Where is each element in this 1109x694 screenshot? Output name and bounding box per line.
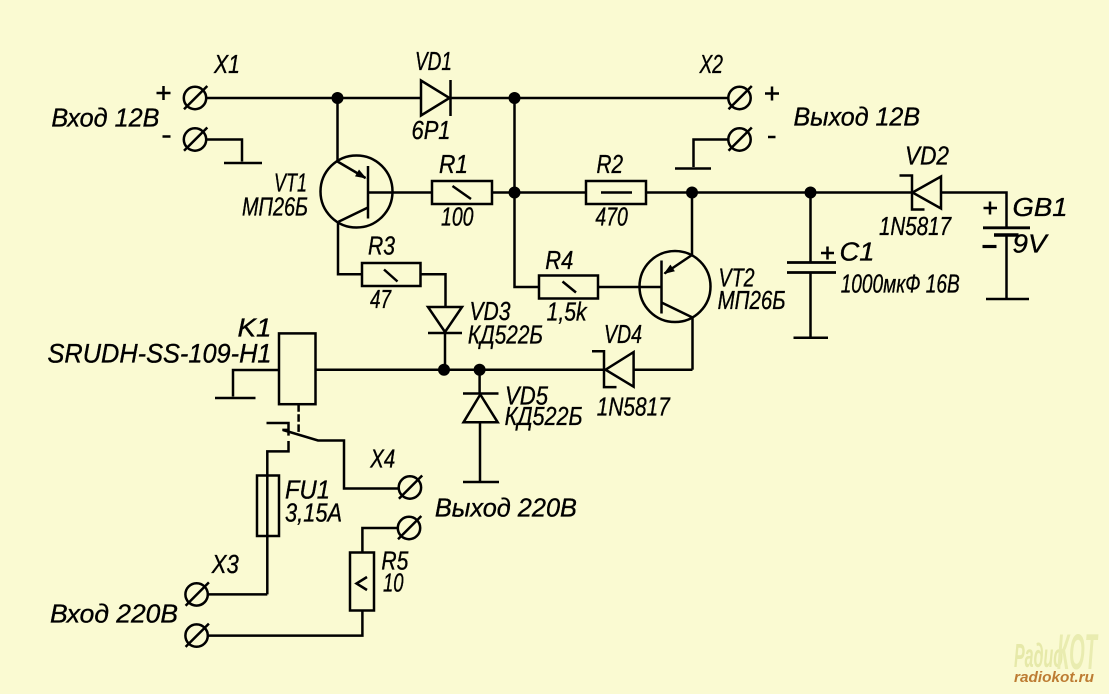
- wire VD1 to node B: [451, 97, 729, 100]
- svg-text:Выход 12В: Выход 12В: [794, 101, 921, 131]
- svg-text:МП26Б: МП26Б: [242, 192, 308, 222]
- terminal X2 pin + (plus, Выход 12В): [728, 86, 752, 109]
- svg-text:GB1: GB1: [1013, 192, 1068, 222]
- diode VD3 КД522Б: [428, 307, 462, 370]
- terminal X4 lower: [398, 516, 422, 539]
- minus sign at GB1: [983, 245, 997, 248]
- svg-text:Вход 12В: Вход 12В: [51, 102, 159, 132]
- dashed mechanical link K1 to contact: [297, 404, 300, 433]
- wire VD4 to VT2 collector: [634, 368, 693, 371]
- diode VD4 1N5817 (Schottky): [592, 351, 634, 387]
- wire VT2 collector down to VD4: [691, 318, 694, 370]
- svg-text:100: 100: [441, 202, 474, 232]
- relay contact K1.1: lower terminal to fuse: [267, 441, 288, 476]
- wire VT1 base to R1: [368, 191, 432, 194]
- svg-text:VD1: VD1: [415, 46, 452, 76]
- node G (junction VD5 / bus): [474, 364, 486, 376]
- plus sign at C1: [821, 247, 834, 260]
- wire R1 to node C: [492, 191, 586, 194]
- plus sign at X1: [157, 86, 171, 100]
- svg-text:6Р1: 6Р1: [412, 115, 451, 145]
- svg-text:R2: R2: [597, 149, 624, 179]
- svg-text:Радио: Радио: [1014, 637, 1063, 674]
- svg-text:3,15A: 3,15A: [285, 498, 342, 528]
- svg-text:КД522Б: КД522Б: [468, 320, 543, 350]
- wire VT1 emitter down to R3: [338, 222, 362, 274]
- svg-text:МП26Б: МП26Б: [718, 285, 786, 315]
- wire node A down to VT1 collector: [336, 98, 339, 162]
- resistor R4: [539, 276, 598, 299]
- svg-text:R3: R3: [368, 231, 395, 261]
- node A (junction top wire / VT1 collector): [332, 92, 344, 104]
- plus sign at GB1: [984, 202, 998, 215]
- resistor R5 (thermistor): [350, 553, 374, 611]
- wire X1+ to node A: [206, 97, 421, 100]
- resistor R3: [362, 263, 421, 286]
- svg-text:470: 470: [595, 202, 628, 232]
- svg-text:VD4: VD4: [604, 319, 642, 349]
- svg-text:1N5817: 1N5817: [879, 211, 952, 241]
- wire X1- to ground: [206, 140, 242, 162]
- terminal X2 pin - (minus): [728, 128, 752, 151]
- ground (common bar) at K1: [215, 397, 256, 400]
- relay contact K1.1: fixed contact: [267, 423, 289, 436]
- wire R2 to VD2: [646, 191, 912, 194]
- svg-text:9V: 9V: [1013, 229, 1050, 259]
- ground (common bar) at X1 minus: [224, 162, 262, 165]
- transistor VT1 МП26Б (PNP): [321, 156, 393, 228]
- wire X2- to ground: [694, 140, 729, 168]
- svg-text:47: 47: [370, 284, 392, 314]
- wire node B down through node C to R4: [515, 98, 540, 287]
- wire relay K1 to VD4 (middle bus): [316, 368, 605, 371]
- plus sign at X2: [765, 87, 779, 101]
- svg-text:SRUDH-SS-109-H1: SRUDH-SS-109-H1: [48, 339, 272, 369]
- svg-text:1000мкФ 16В: 1000мкФ 16В: [841, 269, 960, 299]
- capacitor C1 1000мкФ 16В (electrolytic): [787, 193, 836, 338]
- watermark РадиоКОТ logo: [1014, 624, 1099, 680]
- svg-text:КД522Б: КД522Б: [505, 401, 583, 431]
- diode VD2 1N5817 (Schottky): [900, 176, 942, 210]
- terminal X4 upper (Выход 220В): [399, 476, 423, 499]
- svg-text:1,5k: 1,5k: [547, 297, 589, 327]
- node C (junction R1/R2/column): [509, 187, 521, 199]
- svg-text:X3: X3: [211, 549, 239, 579]
- terminal X1 pin - (minus): [184, 128, 208, 151]
- svg-text:VD2: VD2: [905, 141, 949, 171]
- svg-text:R1: R1: [439, 149, 468, 179]
- wire VD2 to GB1: [941, 193, 1007, 228]
- terminal X1 pin + (plus, Вход 12В): [184, 86, 208, 109]
- svg-text:radiokot.ru: radiokot.ru: [1014, 670, 1094, 686]
- node D (junction R2 / VT2 emitter): [686, 187, 698, 199]
- svg-text:C1: C1: [840, 237, 875, 267]
- wire R5 top to X4 lower: [362, 528, 397, 554]
- wire node D down to VT2 emitter: [691, 193, 694, 256]
- diode VD1: [421, 80, 451, 116]
- svg-text:X2: X2: [699, 49, 724, 79]
- svg-text:X4: X4: [370, 444, 396, 474]
- svg-text:X1: X1: [213, 49, 240, 79]
- terminal X3 lower: [185, 624, 208, 647]
- terminal X3 upper (Вход 220В): [185, 582, 208, 605]
- wire X3 upper to fuse: [208, 593, 267, 596]
- battery GB1 9V: [983, 228, 1030, 299]
- node E (junction C1): [805, 187, 817, 199]
- wire R5 bottom to X3 lower: [208, 610, 363, 635]
- svg-text:R4: R4: [545, 245, 573, 275]
- relay contact K1.1: movable blade: [282, 430, 398, 489]
- diode VD5 КД522Б: [463, 370, 499, 482]
- resistor R1: [432, 181, 492, 204]
- transistor VT2 МП26Б (PNP, mirrored): [640, 251, 711, 322]
- ground (common bar) at X2 minus: [675, 167, 711, 170]
- node B (junction top wire / R1 column): [509, 92, 521, 104]
- svg-text:Выход 220В: Выход 220В: [435, 493, 577, 523]
- wire R3 to VD3: [421, 274, 446, 307]
- ground (common bar) at C1: [794, 336, 829, 339]
- minus sign at X1: [163, 135, 171, 138]
- wire K1 coil left to ground: [233, 370, 279, 397]
- relay K1 coil SRUDH-SS-109-H1: [279, 333, 316, 404]
- fuse FU1 3,15A: [257, 476, 279, 595]
- resistor R2: [586, 181, 646, 204]
- svg-text:Вход 220В: Вход 220В: [50, 599, 178, 629]
- ground (common bar) at VD5 / 220V output neutral: [463, 481, 499, 484]
- minus sign at X2: [768, 136, 776, 139]
- wire R4 to VT2 base: [598, 286, 662, 289]
- svg-text:1N5817: 1N5817: [597, 392, 671, 422]
- node F (junction VD3 / bus): [438, 364, 450, 376]
- svg-text:10: 10: [383, 568, 404, 598]
